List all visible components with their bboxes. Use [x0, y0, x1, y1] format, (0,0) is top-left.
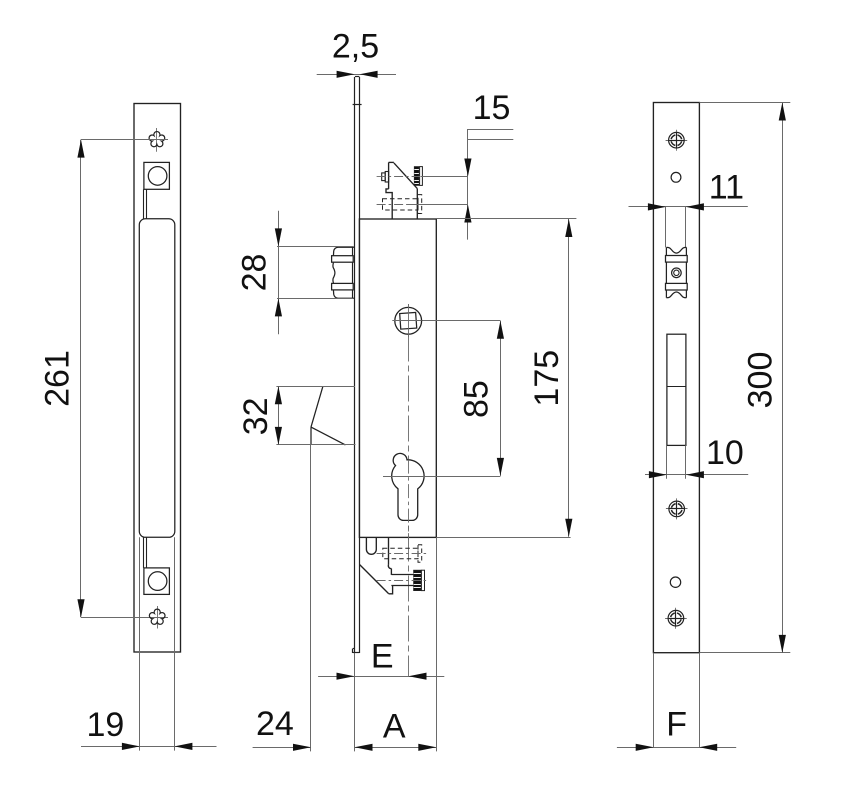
- svg-text:32: 32: [237, 397, 275, 435]
- svg-text:19: 19: [86, 706, 124, 744]
- svg-text:175: 175: [528, 350, 566, 407]
- svg-text:28: 28: [236, 254, 274, 292]
- svg-text:24: 24: [256, 705, 294, 743]
- svg-text:85: 85: [458, 380, 496, 418]
- svg-text:E: E: [371, 637, 394, 675]
- svg-text:15: 15: [473, 89, 511, 127]
- svg-text:10: 10: [706, 434, 744, 472]
- svg-text:2,5: 2,5: [332, 28, 379, 66]
- svg-text:11: 11: [709, 168, 744, 206]
- svg-text:300: 300: [741, 352, 779, 409]
- svg-text:F: F: [666, 706, 687, 744]
- svg-text:261: 261: [39, 350, 77, 407]
- svg-text:A: A: [383, 707, 406, 745]
